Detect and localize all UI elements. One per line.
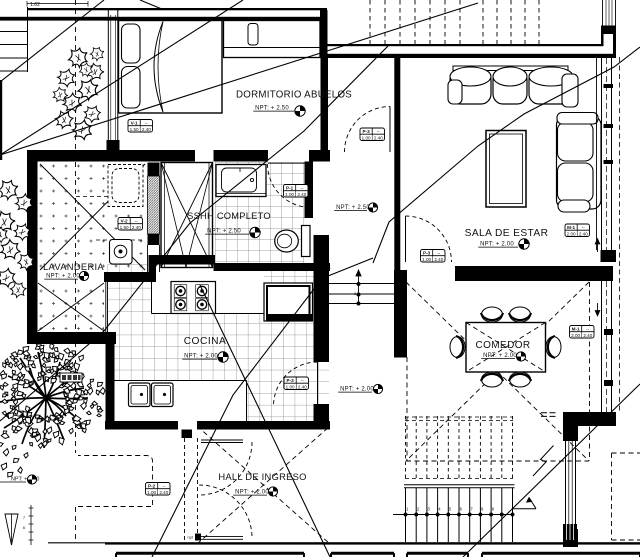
svg-text:2.40: 2.40	[298, 384, 307, 389]
svg-text:M-1: M-1	[567, 225, 575, 230]
svg-text:1.00: 1.00	[362, 135, 371, 140]
svg-text:DORMITORIO ABUELOS: DORMITORIO ABUELOS	[236, 90, 352, 101]
svg-text:1.00: 1.00	[147, 490, 156, 495]
svg-text:NPT: + 2.00: NPT: + 2.00	[46, 274, 80, 280]
svg-text:P-2: P-2	[148, 484, 156, 489]
svg-text:NPT: + 2.00: NPT: + 2.00	[480, 242, 514, 248]
svg-text:P-3: P-3	[363, 129, 371, 134]
svg-text:COCINA: COCINA	[184, 336, 227, 347]
svg-text:npt: npt	[187, 535, 193, 540]
svg-text:NPT: + 2.00: NPT: + 2.00	[184, 354, 218, 360]
svg-text:--: --	[582, 225, 586, 230]
svg-text:--: --	[162, 484, 166, 489]
svg-text:2.40: 2.40	[579, 231, 588, 236]
svg-text:2.40: 2.40	[583, 333, 592, 338]
svg-text:--: --	[377, 129, 381, 134]
svg-text:2.00: 2.00	[571, 333, 580, 338]
svg-text:V-2: V-2	[121, 219, 128, 224]
svg-text:LAVANDERIA: LAVANDERIA	[43, 261, 104, 272]
svg-text:P-1: P-1	[286, 186, 294, 191]
svg-text:2.40: 2.40	[132, 225, 141, 230]
svg-text:2.40: 2.40	[142, 127, 151, 132]
svg-text:1.00: 1.00	[422, 257, 431, 262]
svg-text:1.00: 1.00	[285, 192, 294, 197]
svg-text:1.50: 1.50	[120, 225, 129, 230]
svg-text:NPT: + 2.50: NPT: + 2.50	[255, 106, 289, 112]
svg-text:1.50: 1.50	[130, 127, 139, 132]
svg-text:1.62: 1.62	[30, 2, 40, 8]
svg-text:2.40: 2.40	[297, 192, 306, 197]
svg-text:SSHH COMPLETO: SSHH COMPLETO	[187, 211, 271, 221]
svg-text:2.40: 2.40	[159, 490, 168, 495]
svg-text:NPT: + 2.00: NPT: + 2.00	[483, 353, 517, 359]
svg-text:P-3: P-3	[423, 251, 431, 256]
svg-text:--: --	[145, 121, 149, 126]
svg-text:SALA DE ESTAR: SALA DE ESTAR	[465, 228, 549, 239]
svg-text:--: --	[301, 378, 305, 383]
svg-text:--: --	[586, 327, 590, 332]
svg-text:V-1: V-1	[131, 121, 138, 126]
svg-text:NPT: + 2.50: NPT: + 2.50	[207, 229, 241, 235]
svg-text:P-3: P-3	[287, 378, 295, 383]
svg-text:2.40: 2.40	[374, 135, 383, 140]
svg-text:--: --	[437, 251, 441, 256]
svg-text:M-1: M-1	[572, 327, 580, 332]
svg-text:HALL DE INGRESO: HALL DE INGRESO	[218, 471, 306, 482]
svg-text:2: 2	[354, 292, 356, 296]
svg-text:2.40: 2.40	[434, 257, 443, 262]
svg-text:--: --	[135, 219, 139, 224]
svg-text:NPT: + 2.00: NPT: + 2.00	[235, 490, 269, 496]
svg-text:NPT: + 2.00: NPT: + 2.00	[340, 387, 374, 393]
svg-text:COMEDOR: COMEDOR	[475, 340, 530, 351]
svg-text:NPT: + 2.50: NPT: + 2.50	[336, 205, 370, 211]
svg-text:1.00: 1.00	[286, 384, 295, 389]
svg-text:2.00: 2.00	[567, 231, 576, 236]
svg-text:--: --	[300, 186, 304, 191]
